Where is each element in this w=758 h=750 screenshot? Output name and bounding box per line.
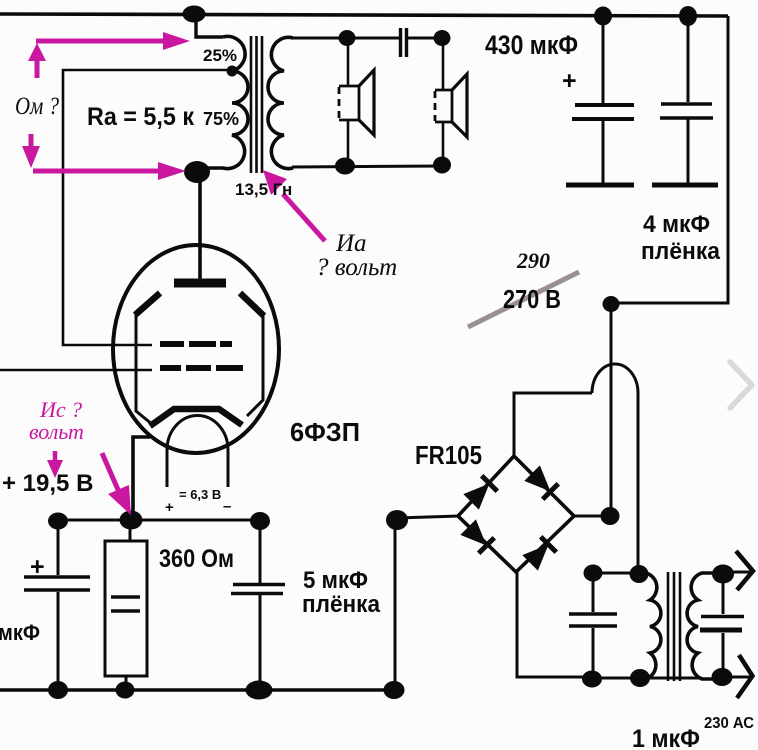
capacitor C1 430uF plates bbox=[572, 105, 634, 119]
wire speaker2 leads bbox=[442, 38, 445, 165]
capacitor speaker coupling bbox=[401, 28, 407, 57]
wire speaker rail top right bbox=[407, 37, 443, 40]
anode lead bbox=[198, 172, 202, 281]
capacitor C4 1uF leads bbox=[722, 574, 725, 677]
diode D3 bottom-left bbox=[460, 519, 494, 553]
wire bridge top AC bbox=[514, 393, 592, 456]
wire grid input from left edge bbox=[0, 369, 152, 372]
node bottom cap5 bbox=[246, 681, 273, 700]
resistor Rk 360 Ohm leads bbox=[126, 520, 130, 690]
svg-text:270 В: 270 В bbox=[503, 284, 561, 314]
wire primary elbow from top node bbox=[196, 20, 223, 37]
svg-text:75%: 75% bbox=[203, 109, 239, 129]
resistor Rk inner marks bbox=[111, 597, 140, 611]
svg-text:430 мкФ: 430 мкФ bbox=[485, 30, 578, 60]
capacitor C3 plates bbox=[569, 614, 617, 626]
wire speaker rail top left bbox=[291, 37, 399, 40]
arrow to 13.5H bbox=[283, 194, 325, 241]
node bottom right rail bbox=[384, 681, 405, 699]
diode D4 bottom-right bbox=[522, 537, 556, 571]
mains arrow bottom bbox=[722, 676, 751, 679]
node speaker2 bottom bbox=[433, 157, 451, 174]
wire bridge bottom AC bbox=[517, 572, 592, 677]
anode plate bbox=[174, 279, 226, 288]
node B+ 270V bbox=[603, 296, 620, 312]
svg-text:= 6,3 В: = 6,3 В bbox=[179, 487, 221, 502]
arrow diagonal to cathode node bbox=[102, 453, 119, 492]
beam plate left bbox=[135, 293, 160, 315]
capacitor C2 4uF lead bbox=[687, 16, 690, 183]
heater arc bbox=[167, 416, 228, 487]
wire feedback from 25% tap to grid bbox=[63, 70, 230, 345]
svg-text:–: – bbox=[223, 498, 231, 515]
wire ground vertical to bridge node bbox=[394, 520, 397, 690]
wire B+ top rail bbox=[0, 14, 728, 16]
wire PT bottom rail bbox=[592, 677, 702, 680]
svg-text:1 мкФ: 1 мкФ bbox=[632, 725, 700, 750]
node speaker1 bottom bbox=[335, 158, 355, 175]
capacitor Ck 100uF leads bbox=[57, 521, 60, 690]
wire PT top rail bbox=[593, 572, 647, 575]
capacitor C5 plates bbox=[231, 585, 285, 594]
svg-text:4 мкФ: 4 мкФ bbox=[643, 211, 710, 238]
svg-text:Ом ?: Ом ? bbox=[15, 93, 59, 120]
wire AC down to transformer bbox=[637, 393, 640, 573]
transformer T1 secondary winding bbox=[268, 37, 293, 168]
bridge FR105 diamond bbox=[458, 456, 574, 572]
transformer T1 primary winding bbox=[200, 36, 248, 168]
wire speaker rail bottom bbox=[292, 166, 443, 167]
node bottom resistor bbox=[116, 682, 135, 699]
cathode lead bbox=[133, 437, 150, 518]
capacitor C5 5uF leads bbox=[259, 521, 262, 690]
grid row 1 dashes bbox=[160, 341, 232, 347]
node tap 25% bbox=[227, 66, 238, 77]
node cap100 top bbox=[48, 513, 68, 530]
magenta italic labels bbox=[29, 397, 84, 444]
svg-text:360 Ом: 360 Ом bbox=[159, 545, 234, 573]
capacitor C4 plates bbox=[701, 615, 744, 619]
svg-text:230 АС: 230 АС bbox=[704, 715, 754, 732]
beam plate right bbox=[240, 293, 264, 316]
svg-text:мкФ: мкФ bbox=[0, 620, 40, 645]
svg-text:вольт: вольт bbox=[29, 419, 84, 444]
wire right border down to 270V node bbox=[612, 16, 728, 303]
node mains top bbox=[712, 565, 734, 584]
node cathode bbox=[120, 511, 143, 530]
diode D1 top-left bbox=[463, 476, 497, 510]
node bridge left bbox=[386, 510, 408, 530]
transformer T2 right winding bbox=[687, 573, 722, 679]
node anode / primary bottom bbox=[184, 161, 210, 183]
svg-text:Иа: Иа bbox=[335, 230, 367, 257]
transformer T1 core bbox=[251, 36, 262, 173]
wire B+ vertical bbox=[610, 304, 613, 516]
node mains bottom bbox=[712, 668, 733, 686]
svg-text:плёнка: плёнка bbox=[302, 591, 381, 618]
node bridge right B+ bbox=[601, 507, 620, 525]
resistor Rk body bbox=[105, 541, 147, 676]
node top cap1 bbox=[594, 7, 612, 26]
bottom rail bbox=[0, 688, 395, 691]
node speaker2 top bbox=[434, 30, 451, 46]
node top-left primary top bbox=[183, 6, 206, 23]
capacitor C3 leads bbox=[592, 574, 595, 678]
svg-text:290: 290 bbox=[516, 248, 550, 273]
node PT cap bottom bbox=[582, 671, 602, 688]
node PT coil bottom bbox=[630, 669, 650, 687]
svg-text:? вольт: ? вольт bbox=[316, 254, 397, 281]
small arrow down (Uc) bbox=[53, 451, 58, 462]
wire bridge right corner to B+ node bbox=[574, 515, 611, 518]
capacitor C1 bottom bar bbox=[566, 183, 634, 188]
speaker SP1 bbox=[339, 70, 374, 135]
strikethrough gray line over 270V bbox=[468, 272, 579, 327]
svg-text:6ФЗП: 6ФЗП bbox=[290, 417, 360, 447]
arrow down (Om) bbox=[29, 134, 34, 149]
svg-text:13,5 Гн: 13,5 Гн bbox=[235, 180, 292, 199]
capacitor C1 430uF lead bbox=[602, 16, 605, 183]
svg-text:FR105: FR105 bbox=[415, 440, 482, 470]
svg-text:плёнка: плёнка bbox=[641, 238, 721, 265]
svg-text:5 мкФ: 5 мкФ bbox=[303, 567, 368, 594]
node cap5 top bbox=[250, 512, 270, 530]
capacitor Ck plates bbox=[24, 577, 90, 590]
svg-text:+: + bbox=[165, 499, 174, 516]
arrow to primary bottom bbox=[33, 169, 161, 174]
wire node to bridge left corner bbox=[397, 516, 459, 518]
arrow to primary top bbox=[36, 39, 166, 44]
transformer T2 core bbox=[668, 572, 680, 681]
node top cap2 bbox=[679, 6, 697, 26]
cathode rail bbox=[50, 519, 261, 522]
svg-text:Ra = 5,5 к: Ra = 5,5 к bbox=[87, 103, 194, 131]
svg-text:25%: 25% bbox=[203, 46, 237, 65]
grid row 2 dashes bbox=[160, 365, 243, 371]
node bottom cap100 bbox=[48, 681, 68, 699]
node PT coil top bbox=[630, 565, 649, 583]
capacitor C2 bottom bar bbox=[652, 183, 718, 188]
tube V1 envelope bbox=[113, 245, 279, 453]
diode D2 top-right bbox=[524, 465, 558, 499]
mains arrow top bbox=[723, 571, 751, 574]
magenta annotations bbox=[22, 32, 325, 515]
speaker SP2 bbox=[435, 74, 467, 137]
wire crossover hop bbox=[592, 364, 638, 393]
carousel chevron overlay bbox=[730, 362, 752, 408]
node speaker1 top bbox=[339, 30, 356, 46]
cathode bbox=[150, 409, 242, 426]
transformer T2 left winding bbox=[640, 573, 661, 679]
arrow up (Om) bbox=[35, 59, 40, 78]
svg-text:+: + bbox=[562, 67, 577, 95]
wire speaker1 leads bbox=[347, 38, 350, 166]
svg-text:+ 19,5 В: + 19,5 В bbox=[2, 470, 93, 497]
svg-text:+: + bbox=[30, 553, 45, 581]
capacitor C2 4uF plates bbox=[660, 104, 713, 118]
node PT cap top bbox=[584, 565, 603, 582]
